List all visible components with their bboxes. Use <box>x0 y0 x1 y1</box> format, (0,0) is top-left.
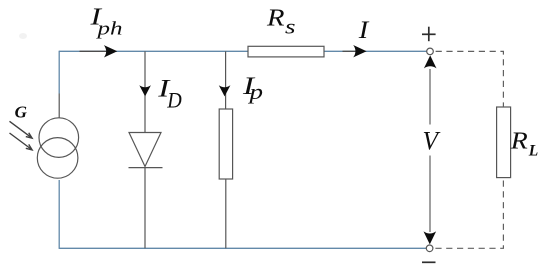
svg-text:V: V <box>423 126 442 155</box>
svg-text:R: R <box>510 128 529 154</box>
svg-text:ph: ph <box>95 19 123 40</box>
svg-text:p: p <box>247 79 263 104</box>
svg-text:D: D <box>166 87 182 112</box>
svg-text:I: I <box>358 17 371 44</box>
svg-text:G: G <box>15 102 28 121</box>
svg-text:s: s <box>285 14 296 38</box>
svg-text:R: R <box>266 5 285 31</box>
svg-text:L: L <box>528 143 539 160</box>
